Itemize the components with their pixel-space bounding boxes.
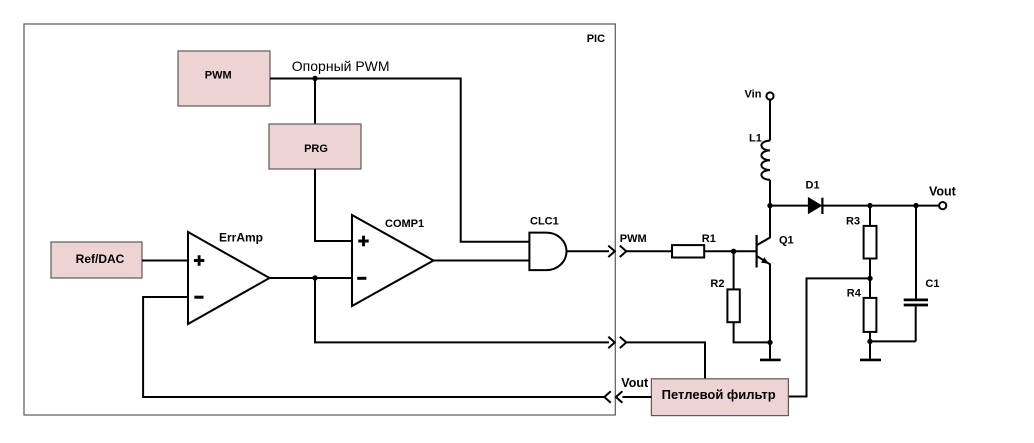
op-amp ErrAmp [188, 230, 270, 324]
svg-text:COMP1: COMP1 [385, 218, 424, 230]
wire R4 bottom to C1 bottom [870, 340, 916, 342]
svg-text:R3: R3 [846, 215, 860, 227]
wire D1 to Vout [823, 205, 939, 207]
port Vout input arrow [616, 391, 623, 402]
wire R2 bottom to emitter node [734, 322, 770, 342]
wire CLC1 output [566, 250, 609, 252]
capacitor C1 [904, 206, 940, 342]
wire COMP1 output to CLC1 bottom input [434, 260, 530, 262]
block loop filter [651, 379, 788, 416]
port PWM chevron [620, 246, 627, 257]
junction collector node [767, 203, 772, 208]
junction Q1 emitter node [767, 340, 772, 345]
wire junction down to R2 [733, 251, 735, 289]
wire Vout feedback to ErrAmp minus input [143, 297, 604, 397]
port 2 output arrow [608, 337, 615, 348]
port PWM output arrow [608, 246, 615, 257]
junction C1 top node [913, 203, 918, 208]
wire PWM output to CLC1 top input [270, 79, 529, 242]
port 2 chevron [620, 337, 627, 348]
wire COMP1 minus node to port 2 [315, 278, 609, 342]
PIC block boundary [24, 24, 615, 415]
wire collector node to L1 [769, 180, 771, 206]
wire Ref/DAC to ErrAmp plus input [142, 260, 188, 262]
svg-text:L1: L1 [749, 132, 762, 144]
svg-text:CLC1: CLC1 [530, 216, 559, 228]
svg-text:Vout: Vout [621, 376, 649, 390]
block Ref/DAC [51, 242, 142, 278]
svg-text:Vin: Vin [745, 88, 762, 100]
svg-text:ErrAmp: ErrAmp [219, 230, 263, 244]
wire feedback tap to loop filter [788, 278, 870, 396]
terminal Vin [745, 88, 774, 100]
svg-text:PRG: PRG [304, 143, 328, 155]
svg-text:Vout: Vout [929, 184, 957, 198]
junction R4 bottom node [867, 339, 872, 344]
junction ErrAmp output node [312, 275, 317, 280]
junction R3/R4 node [867, 276, 872, 281]
svg-text:PIC: PIC [587, 33, 605, 45]
resistor R4 [847, 278, 877, 341]
svg-text:R2: R2 [710, 278, 724, 290]
wire port 2 to loop filter top [626, 342, 705, 378]
resistor R2 [710, 278, 739, 322]
svg-text:R1: R1 [702, 233, 716, 245]
transistor Q1 [757, 206, 794, 343]
wire R1 to Q1 base [704, 250, 756, 252]
junction PWM/PRG node [312, 76, 317, 81]
AND gate CLC1 [529, 216, 566, 271]
port Vout chevron [604, 391, 611, 402]
wire L1 to Vin [769, 100, 771, 141]
svg-text:D1: D1 [806, 179, 820, 191]
svg-text:R4: R4 [847, 288, 862, 300]
svg-text:Петлевой фильтр: Петлевой фильтр [662, 387, 776, 402]
block PRG [269, 124, 361, 169]
ground under R4 [860, 341, 881, 360]
op-amp COMP1 [352, 215, 434, 306]
svg-text:Опорный PWM: Опорный PWM [292, 58, 390, 74]
svg-text:Ref/DAC: Ref/DAC [76, 252, 125, 266]
block PWM [178, 51, 270, 106]
wire junction to PRG top [314, 79, 316, 125]
diode D1 [806, 179, 823, 214]
svg-text:Q1: Q1 [779, 234, 794, 246]
svg-text:C1: C1 [925, 278, 939, 290]
junction R3 top node [867, 203, 872, 208]
wire PRG to COMP1 plus input [315, 169, 352, 241]
inductor L1 [749, 132, 770, 180]
wire ErrAmp output to COMP1 minus input [270, 277, 353, 279]
wire collector node to D1 [770, 205, 808, 207]
svg-text:PWM: PWM [620, 233, 647, 245]
ground under Q1 [760, 342, 781, 360]
wire loop filter to Vout port [622, 396, 651, 398]
resistor R3 [846, 206, 877, 279]
terminal Vout [929, 184, 957, 209]
resistor R1 [672, 233, 716, 258]
wire port to R1 [626, 250, 672, 252]
svg-text:PWM: PWM [205, 70, 232, 82]
junction base/R2 node [731, 249, 736, 254]
